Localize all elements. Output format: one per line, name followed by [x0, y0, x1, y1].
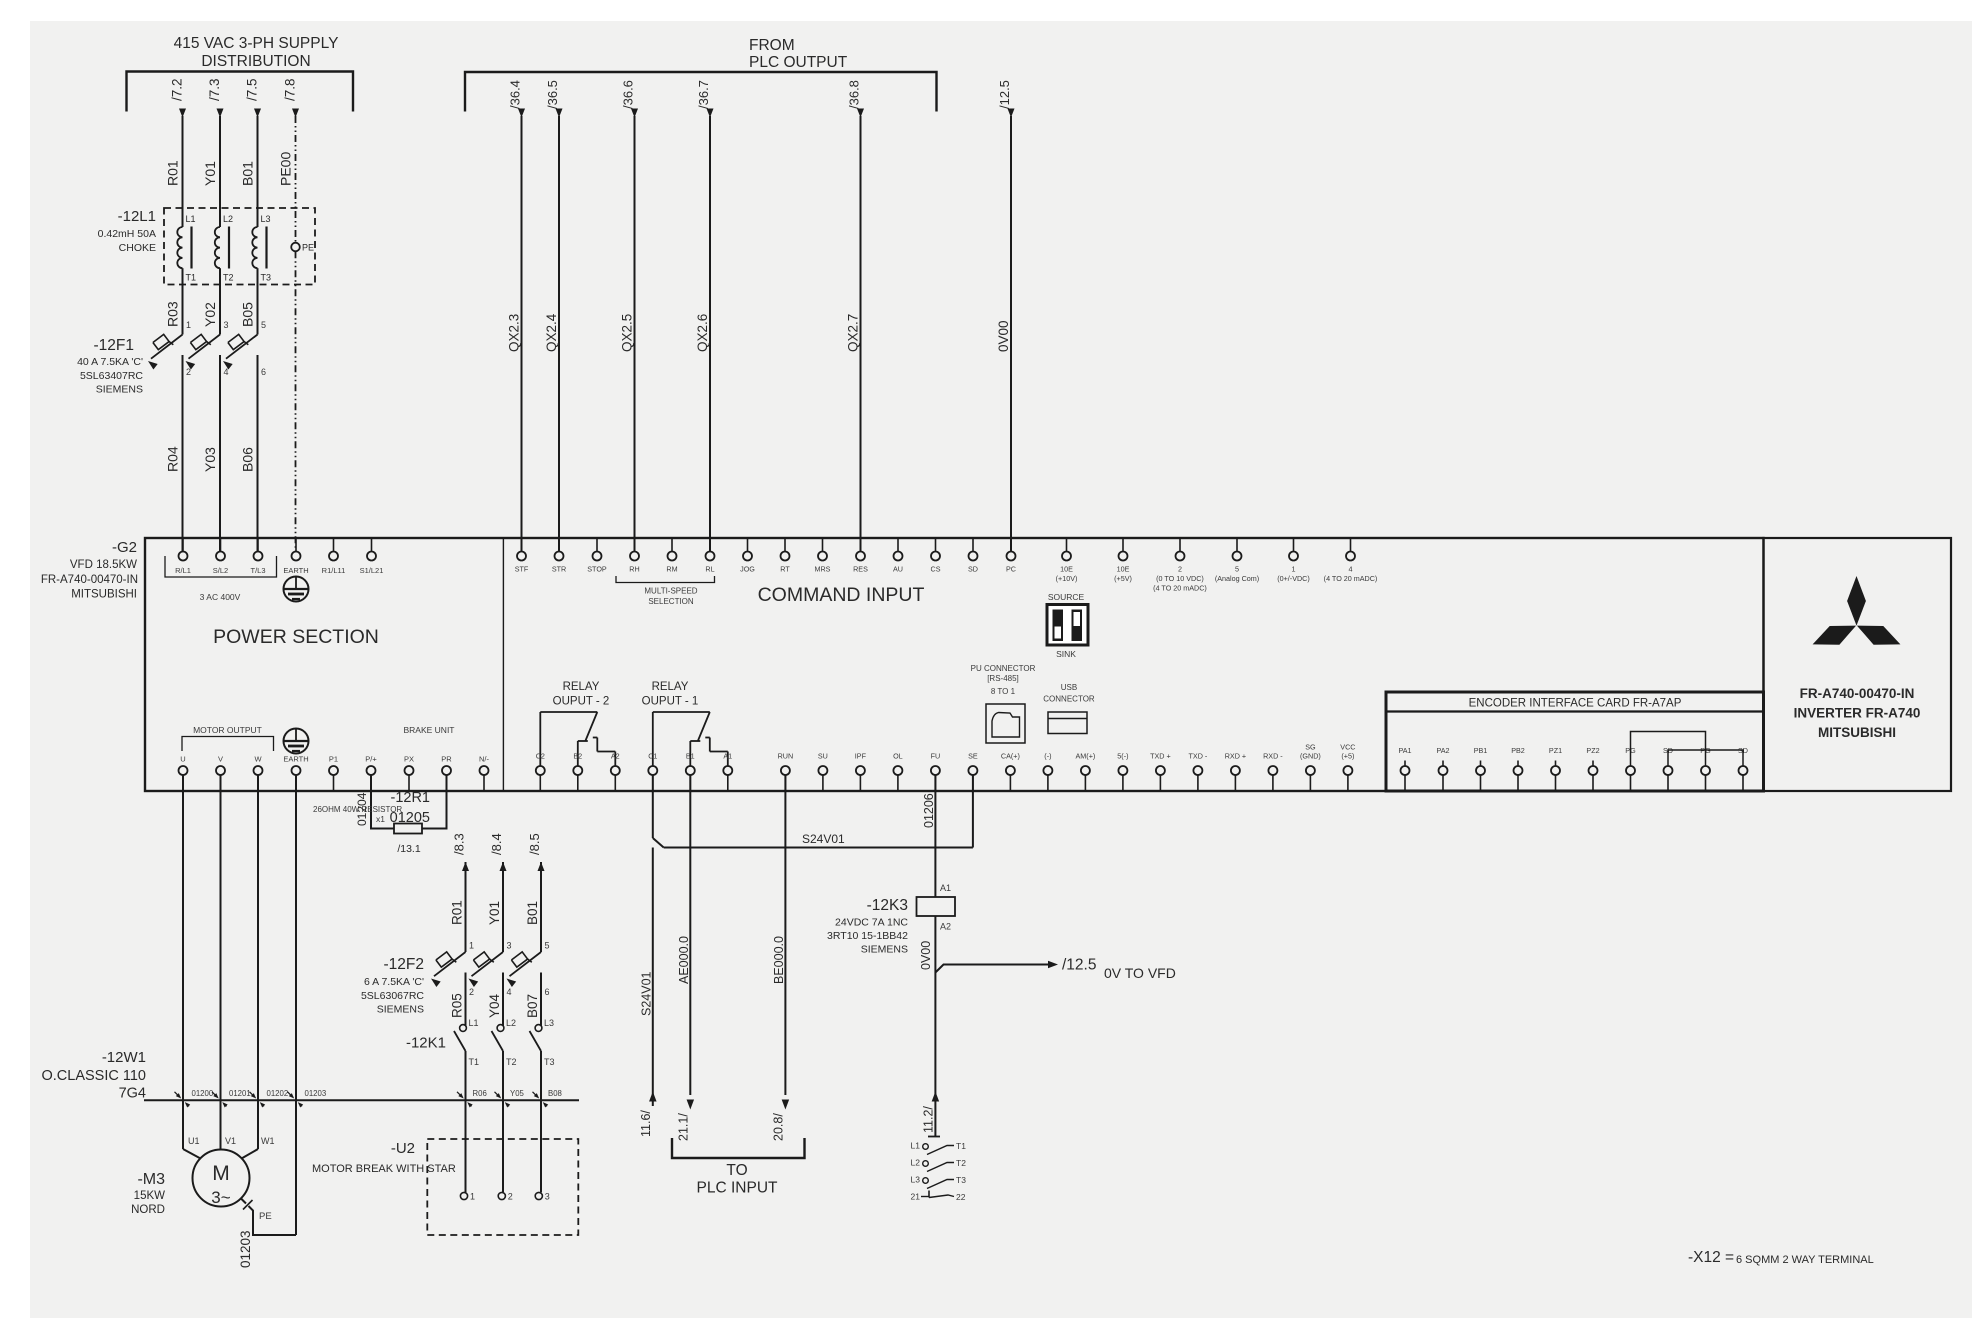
wire S24V01 from C1 to SE — [653, 775, 973, 848]
terminal PC — [1006, 538, 1016, 574]
terminal RL — [705, 538, 714, 574]
terminal AU — [893, 538, 903, 574]
terminal PX — [404, 755, 414, 792]
svg-text:U: U — [180, 755, 185, 764]
svg-text:P1: P1 — [329, 755, 338, 764]
terminal encoder PG — [1700, 746, 1711, 791]
svg-text:IPF: IPF — [855, 752, 867, 761]
junction cable core 01200 — [175, 1089, 214, 1107]
svg-text:L3: L3 — [911, 1175, 921, 1185]
terminal encoder PZ2 — [1586, 746, 1599, 791]
svg-text:PLC INPUT: PLC INPUT — [697, 1180, 778, 1197]
terminal C2 — [536, 752, 545, 792]
wire earth from EARTH terminal — [295, 775, 297, 1235]
svg-text:INVERTER FR-A740: INVERTER FR-A740 — [1794, 706, 1921, 721]
svg-text:-U2: -U2 — [391, 1140, 415, 1157]
svg-text:2: 2 — [469, 987, 474, 997]
cable -12W1 line — [144, 1099, 579, 1101]
wire QX2.7 from PLC output — [846, 80, 865, 551]
svg-text:RXD +: RXD + — [1225, 752, 1246, 761]
svg-text:T/L3: T/L3 — [250, 566, 265, 575]
svg-text:SIEMENS: SIEMENS — [861, 944, 908, 956]
terminal B1 — [686, 752, 695, 792]
wire jumper SD-SD — [1668, 750, 1743, 766]
label -12F1 40 A 7.5KA 'C' 5SL63407RC SIEMENS — [77, 337, 143, 396]
svg-text:M: M — [212, 1162, 230, 1185]
svg-text:MULTI-SPEED: MULTI-SPEED — [644, 587, 697, 596]
terminal encoder SD — [1663, 746, 1673, 791]
terminal SE — [968, 752, 978, 792]
module ENCODER INTERFACE CARD FR-A7AP — [1386, 692, 1764, 791]
svg-text:STR: STR — [552, 565, 566, 574]
svg-text:Y04: Y04 — [487, 993, 502, 1018]
svg-text:R01: R01 — [165, 160, 181, 186]
terminal MRS — [815, 538, 831, 574]
wire B07 — [525, 973, 541, 1027]
svg-text:A1: A1 — [940, 883, 951, 893]
terminal encoder PB1 — [1474, 746, 1488, 791]
label -G2 VFD 18.5KW FR-A740-00470-IN MITSUBISHI — [41, 539, 138, 601]
terminal 10E — [1114, 538, 1132, 583]
svg-text:SE: SE — [968, 752, 978, 761]
terminal CA(+) — [1001, 752, 1020, 792]
svg-text:PZ2: PZ2 — [1586, 746, 1599, 755]
svg-text:5: 5 — [1235, 565, 1239, 574]
label -12W1 O.CLASSIC 110 7G4 — [41, 1049, 146, 1102]
svg-text:L1: L1 — [469, 1018, 479, 1028]
svg-text:B1: B1 — [686, 752, 695, 761]
svg-text:B07: B07 — [525, 994, 540, 1018]
svg-text:[RS-485]: [RS-485] — [987, 674, 1019, 683]
svg-text:5: 5 — [545, 941, 550, 951]
svg-text:PB2: PB2 — [1511, 746, 1525, 755]
VFD unit -G2 main enclosure — [145, 538, 1764, 791]
terminal S1/L21 — [360, 538, 384, 575]
wire Y04 to brake unit — [502, 1051, 504, 1192]
svg-text:PA2: PA2 — [1436, 746, 1449, 755]
svg-text:(-): (-) — [1044, 752, 1051, 761]
svg-text:20.8/: 20.8/ — [772, 1113, 786, 1141]
svg-text:15KW: 15KW — [134, 1190, 165, 1202]
svg-text:/7.5: /7.5 — [245, 78, 260, 101]
svg-text:B05: B05 — [240, 302, 256, 327]
svg-text:PX: PX — [404, 755, 414, 764]
terminal 5(-) — [1117, 752, 1128, 792]
label -12L1 0.42mH 50A CHOKE — [98, 208, 156, 254]
connector USB — [1043, 683, 1095, 734]
terminal STF — [515, 538, 529, 574]
svg-text:(4 TO 20 mADC): (4 TO 20 mADC) — [1324, 574, 1378, 583]
svg-text:-X12 =: -X12 = — [1688, 1249, 1734, 1266]
wire AE000.0 to PLC input — [677, 775, 695, 1141]
svg-text:T2: T2 — [506, 1057, 517, 1067]
wire PE00 protective earth (dash-dot) — [278, 78, 300, 551]
wire R01 to sheet /8.3 — [450, 833, 470, 952]
terminal RH — [629, 538, 639, 574]
motor -M3 15KW NORD — [131, 1150, 249, 1217]
wire 0V00 from sheet 12.5 — [996, 80, 1015, 551]
svg-text:/12.5: /12.5 — [997, 80, 1012, 109]
svg-text:V: V — [218, 755, 223, 764]
svg-text:W: W — [254, 755, 262, 764]
svg-text:RELAY: RELAY — [652, 681, 689, 693]
terminal RES — [853, 538, 868, 574]
svg-text:5SL63407RC: 5SL63407RC — [80, 370, 143, 382]
wire Y01 supply phase — [202, 78, 224, 208]
terminal A1 — [723, 752, 732, 792]
svg-text:PC: PC — [1006, 565, 1016, 574]
terminal encoder PZ1 — [1549, 746, 1562, 791]
svg-text:L2: L2 — [911, 1158, 921, 1168]
wire motor PE lead 01203 — [238, 1199, 296, 1269]
svg-text:RXD -: RXD - — [1263, 752, 1283, 761]
svg-text:0V00: 0V00 — [996, 320, 1011, 352]
wire Y02 — [202, 285, 220, 335]
svg-text:2: 2 — [1178, 565, 1182, 574]
svg-text:PE: PE — [259, 1211, 272, 1222]
terminal encoder PB2 — [1511, 746, 1525, 791]
svg-text:OL: OL — [893, 752, 903, 761]
inductor -12L1 phase L1-T1 coil — [177, 208, 196, 285]
terminal CS — [931, 538, 941, 574]
svg-text:01204: 01204 — [355, 792, 369, 826]
svg-text:-12K1: -12K1 — [406, 1035, 446, 1052]
svg-text:PU CONNECTOR: PU CONNECTOR — [971, 664, 1036, 673]
terminal B2 — [573, 752, 582, 792]
terminal 4 — [1324, 538, 1378, 583]
svg-text:S/L2: S/L2 — [213, 566, 228, 575]
svg-text:/36.5: /36.5 — [545, 80, 560, 109]
inductor -12L1 phase L2-T2 coil — [215, 208, 234, 285]
svg-text:FR-A740-00470-IN: FR-A740-00470-IN — [41, 574, 138, 586]
terminal RM — [666, 538, 677, 574]
wire R01 supply phase — [165, 78, 187, 208]
node FROM PLC OUTPUT bracket — [465, 37, 937, 112]
svg-text:3: 3 — [224, 320, 229, 330]
wire motor lead U1 — [183, 1100, 201, 1158]
wire 01206 from FU terminal — [922, 775, 936, 897]
switch SOURCE/SINK selector — [1047, 592, 1088, 659]
brake unit -U2 dashed enclosure — [427, 1139, 578, 1235]
svg-text:RM: RM — [666, 565, 677, 574]
terminal FU — [931, 752, 941, 792]
svg-text:0.42mH 50A: 0.42mH 50A — [98, 228, 156, 240]
svg-text:A1: A1 — [723, 752, 732, 761]
junction cable core 01202 — [250, 1089, 289, 1107]
svg-text:(0 TO 10 VDC): (0 TO 10 VDC) — [1156, 574, 1204, 583]
svg-text:A2: A2 — [940, 922, 951, 932]
svg-text:01203: 01203 — [238, 1230, 253, 1268]
svg-text:CA(+): CA(+) — [1001, 752, 1020, 761]
svg-text:2: 2 — [508, 1192, 513, 1202]
node MULTI-SPEED SELECTION bracket — [616, 576, 715, 606]
wire 0V00 below coil — [919, 916, 935, 1106]
svg-text:/36.7: /36.7 — [696, 80, 711, 109]
svg-text:/36.4: /36.4 — [508, 80, 523, 109]
svg-text:01206: 01206 — [922, 793, 936, 828]
label -U2 MOTOR BREAK WITH STAR — [312, 1140, 456, 1175]
wire B01 supply phase — [240, 78, 262, 208]
terminal PR — [441, 755, 452, 792]
svg-text:MITSUBISHI: MITSUBISHI — [1818, 725, 1896, 740]
contact image -12K3 21-22 NC — [911, 1191, 966, 1203]
svg-text:COMMAND INPUT: COMMAND INPUT — [758, 584, 925, 606]
svg-text:0V00: 0V00 — [919, 941, 933, 970]
terminal (-) — [1043, 752, 1052, 792]
svg-text:Y02: Y02 — [202, 302, 218, 327]
svg-text:O.CLASSIC 110: O.CLASSIC 110 — [41, 1068, 146, 1084]
wire R05 — [450, 973, 466, 1027]
svg-text:/8.3: /8.3 — [452, 833, 467, 855]
svg-text:C2: C2 — [536, 752, 545, 761]
junction cable core 01203 — [288, 1089, 327, 1107]
resistor -12R1 brake resistor loop — [371, 775, 447, 834]
svg-text:U1: U1 — [188, 1136, 200, 1146]
wire B01 to sheet /8.5 — [525, 833, 545, 952]
svg-text:-12R1: -12R1 — [391, 790, 431, 806]
svg-text:P/+: P/+ — [365, 755, 377, 764]
inductor -12L1 choke dashed enclosure — [164, 208, 315, 285]
svg-text:/13.1: /13.1 — [397, 843, 421, 855]
svg-text:R1/L11: R1/L11 — [322, 566, 346, 575]
svg-text:Y03: Y03 — [202, 447, 218, 472]
svg-text:QX2.4: QX2.4 — [544, 313, 559, 352]
junction cable core R06 — [457, 1089, 487, 1107]
ground symbol bottom earth — [284, 729, 309, 754]
svg-text:CS: CS — [931, 565, 941, 574]
svg-text:PLC OUTPUT: PLC OUTPUT — [749, 54, 848, 71]
svg-text:1: 1 — [186, 320, 191, 330]
terminal A2 — [611, 752, 620, 792]
manufacturer box FR-A740 MITSUBISHI — [1764, 538, 1952, 791]
wire Y04 — [487, 973, 503, 1027]
svg-text:QX2.3: QX2.3 — [507, 314, 522, 352]
svg-text:-12F1: -12F1 — [94, 337, 135, 354]
svg-text:EARTH: EARTH — [283, 755, 308, 764]
wire B05 — [240, 285, 258, 335]
wire motor lead W1 — [242, 1100, 275, 1158]
svg-text:CONNECTOR: CONNECTOR — [1043, 695, 1095, 704]
terminal 5 — [1215, 538, 1259, 583]
terminal 10E — [1056, 538, 1078, 583]
node 3 AC 400V bracket — [165, 556, 277, 602]
svg-text:1: 1 — [470, 1192, 475, 1202]
wire R05 to brake unit — [465, 1051, 467, 1192]
terminal U — [179, 755, 188, 792]
terminal STOP — [587, 538, 607, 574]
svg-text:L2: L2 — [506, 1018, 516, 1028]
svg-text:4: 4 — [507, 987, 512, 997]
label -12R1 26OHM 40W RESISTOR x1 01205 /13.1 01204 — [313, 790, 430, 855]
terminal encoder PG — [1625, 746, 1636, 791]
svg-text:W1: W1 — [261, 1136, 275, 1146]
svg-text:MITSUBISHI: MITSUBISHI — [71, 589, 137, 601]
wire Y03 — [202, 355, 220, 551]
terminal encoder PA1 — [1398, 746, 1411, 791]
svg-text:FU: FU — [931, 752, 941, 761]
terminal P1 — [329, 755, 338, 792]
svg-text:PA1: PA1 — [1398, 746, 1411, 755]
wire B07 to brake unit — [540, 1051, 542, 1192]
svg-text:MOTOR BREAK WITH STAR: MOTOR BREAK WITH STAR — [312, 1163, 456, 1175]
svg-text:(0+/-VDC): (0+/-VDC) — [1277, 574, 1310, 583]
svg-text:NORD: NORD — [131, 1204, 165, 1216]
terminal RXD + — [1225, 752, 1246, 792]
svg-text:21.1/: 21.1/ — [677, 1113, 691, 1141]
svg-text:-G2: -G2 — [112, 539, 137, 556]
svg-text:T1: T1 — [956, 1141, 966, 1151]
terminal N/- — [479, 755, 490, 792]
terminal TXD + — [1150, 752, 1171, 792]
svg-text:4: 4 — [1349, 565, 1353, 574]
svg-text:01200: 01200 — [192, 1089, 214, 1098]
svg-text:415 VAC 3-PH SUPPLY: 415 VAC 3-PH SUPPLY — [174, 35, 339, 52]
terminal 1 — [1277, 538, 1310, 583]
svg-text:RUN: RUN — [778, 752, 794, 761]
svg-text:/36.6: /36.6 — [621, 80, 636, 109]
wire motor phase from V — [220, 775, 222, 1100]
svg-text:5SL63067RC: 5SL63067RC — [361, 990, 424, 1002]
terminal EARTH — [283, 538, 308, 575]
label POWER SECTION — [213, 626, 379, 648]
terminal OL — [893, 752, 903, 792]
terminal R1/L11 — [322, 538, 346, 575]
svg-text:T1: T1 — [186, 273, 197, 283]
svg-text:22: 22 — [956, 1192, 966, 1202]
svg-text:(+10V): (+10V) — [1056, 574, 1078, 583]
wire Y01 to sheet /8.4 — [487, 833, 507, 952]
terminal STR — [552, 538, 566, 574]
svg-text:L3: L3 — [261, 214, 271, 224]
circuit breaker -12F1 3-pole MCB — [148, 320, 266, 377]
terminal encoder PA2 — [1436, 746, 1449, 791]
svg-text:T3: T3 — [261, 273, 272, 283]
svg-text:B2: B2 — [573, 752, 582, 761]
svg-text:R05: R05 — [450, 993, 465, 1018]
svg-text:L1: L1 — [911, 1141, 921, 1151]
svg-text:-12K3: -12K3 — [867, 897, 908, 914]
svg-text:T3: T3 — [956, 1175, 966, 1185]
terminal SU — [818, 752, 828, 792]
svg-text:01201: 01201 — [229, 1089, 251, 1098]
svg-text:RT: RT — [780, 565, 790, 574]
wire motor lead V1 — [221, 1100, 237, 1149]
svg-text:/12.5: /12.5 — [1062, 957, 1096, 974]
svg-text:T2: T2 — [223, 273, 234, 283]
ground symbol top earth — [284, 577, 309, 602]
svg-text:SIEMENS: SIEMENS — [377, 1004, 424, 1016]
svg-text:/7.2: /7.2 — [170, 78, 185, 101]
wire QX2.5 from PLC output — [620, 80, 639, 551]
svg-text:(GND): (GND) — [1300, 752, 1321, 761]
svg-text:MOTOR OUTPUT: MOTOR OUTPUT — [193, 725, 262, 735]
node MOTOR OUTPUT bracket — [182, 725, 274, 751]
svg-text:VFD 18.5KW: VFD 18.5KW — [70, 559, 137, 571]
svg-text:24VDC 7A 1NC: 24VDC 7A 1NC — [835, 917, 908, 929]
wire BE000.0 to PLC input — [772, 775, 790, 1141]
svg-text:TXD +: TXD + — [1150, 752, 1171, 761]
svg-text:PZ1: PZ1 — [1549, 746, 1562, 755]
wire motor phase from U — [182, 775, 184, 1100]
terminal RXD - — [1263, 752, 1283, 792]
svg-text:V1: V1 — [225, 1136, 236, 1146]
wire QX2.4 from PLC output — [544, 80, 563, 551]
svg-text:3RT10 15-1BB42: 3RT10 15-1BB42 — [827, 930, 908, 942]
svg-text:SELECTION: SELECTION — [648, 597, 694, 606]
svg-text:Y05: Y05 — [510, 1089, 525, 1098]
svg-text:11.2/: 11.2/ — [922, 1106, 936, 1133]
terminal SD — [968, 538, 978, 574]
label -X12 = 6 SQMM 2 WAY TERMINAL — [1688, 1249, 1874, 1266]
svg-text:S24V01: S24V01 — [802, 832, 845, 846]
svg-text:01202: 01202 — [267, 1089, 289, 1098]
wire QX2.3 from PLC output — [507, 80, 526, 551]
svg-text:L1: L1 — [186, 214, 196, 224]
svg-text:B06: B06 — [240, 447, 256, 472]
junction cable core 01201 — [212, 1089, 251, 1107]
svg-text:-M3: -M3 — [137, 1171, 165, 1188]
svg-text:8 TO 1: 8 TO 1 — [991, 687, 1016, 696]
svg-text:POWER SECTION: POWER SECTION — [213, 626, 379, 648]
terminal TXD - — [1189, 752, 1208, 792]
svg-text:/7.3: /7.3 — [207, 78, 222, 101]
contact image -12K3 L1-T1 — [911, 1141, 967, 1155]
divider between power section and command input — [502, 538, 504, 791]
svg-text:TXD -: TXD - — [1189, 752, 1208, 761]
node 415 VAC 3-PH supply distribution bracket — [127, 35, 354, 112]
svg-text:SG: SG — [1305, 743, 1316, 752]
svg-text:3 AC 400V: 3 AC 400V — [200, 592, 241, 602]
terminal RT — [780, 538, 790, 574]
svg-text:R04: R04 — [165, 446, 181, 472]
svg-text:6 A 7.5KA 'C': 6 A 7.5KA 'C' — [364, 976, 424, 988]
svg-text:B01: B01 — [525, 901, 540, 925]
terminal AM(+) — [1076, 752, 1096, 792]
svg-text:01205: 01205 — [390, 810, 430, 826]
wire 0V00 to PLC sheet 11.2 — [922, 1092, 941, 1137]
svg-text:BE000.0: BE000.0 — [772, 936, 786, 984]
svg-text:R03: R03 — [165, 301, 181, 327]
svg-text:FR-A740-00470-IN: FR-A740-00470-IN — [1800, 686, 1915, 701]
svg-text:PE: PE — [302, 243, 314, 253]
svg-text:B08: B08 — [548, 1089, 562, 1098]
wire R03 — [165, 285, 183, 335]
svg-text:A2: A2 — [611, 752, 620, 761]
relay contact RELAY OUPUT - 1 — [642, 681, 728, 766]
svg-text:T1: T1 — [469, 1057, 480, 1067]
terminal C1 — [648, 752, 657, 792]
svg-text:VCC: VCC — [1340, 743, 1355, 752]
svg-text:C1: C1 — [648, 752, 657, 761]
label -12F2 6 A 7.5KA 'C' 5SL63067RC SIEMENS — [361, 956, 424, 1016]
svg-text:(+5V): (+5V) — [1114, 574, 1132, 583]
svg-text:JOG: JOG — [740, 565, 755, 574]
terminal brake unit 2 — [498, 1192, 513, 1202]
svg-text:USB: USB — [1061, 683, 1077, 692]
svg-text:3: 3 — [507, 941, 512, 951]
svg-text:TO: TO — [726, 1162, 747, 1179]
svg-text:RELAY: RELAY — [563, 681, 600, 693]
svg-text:(Analog Com): (Analog Com) — [1215, 574, 1259, 583]
wire R04 — [165, 355, 183, 551]
terminal T/L3 — [250, 538, 265, 575]
svg-text:-12F2: -12F2 — [384, 956, 425, 973]
terminal R/L1 — [175, 538, 191, 575]
terminal IPF — [855, 752, 867, 792]
svg-text:1: 1 — [469, 941, 474, 951]
svg-text:10E: 10E — [1117, 565, 1130, 574]
svg-text:6 SQMM 2 WAY TERMINAL: 6 SQMM 2 WAY TERMINAL — [1736, 1254, 1874, 1266]
